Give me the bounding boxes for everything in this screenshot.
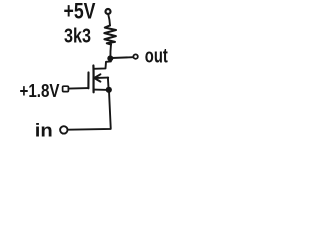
svg-text:+5V: +5V: [64, 0, 96, 23]
svg-text:in: in: [35, 119, 53, 140]
svg-text:+1.8V: +1.8V: [20, 81, 60, 101]
svg-text:out: out: [145, 44, 168, 67]
svg-text:3k3: 3k3: [64, 24, 91, 47]
